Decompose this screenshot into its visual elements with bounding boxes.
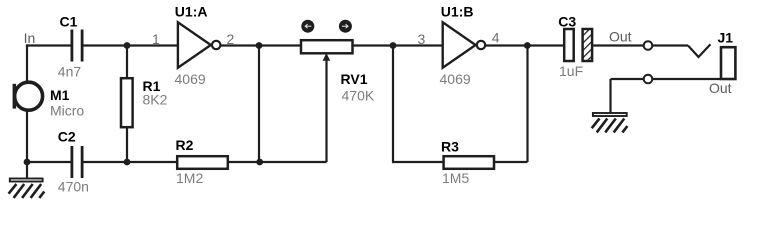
svg-text:C2: C2 (58, 129, 76, 145)
wire mic top lead (26, 44, 28, 82)
microphone M1 (13, 82, 43, 110)
svg-text:4: 4 (492, 30, 500, 46)
wire corner up to node4 (526, 46, 528, 163)
svg-text:3: 3 (418, 31, 426, 47)
wire lower pin to ground corner (611, 78, 644, 80)
svg-text:R3: R3 (441, 139, 459, 155)
svg-text:4069: 4069 (175, 71, 206, 87)
wire J1 bottom to lower pin (653, 78, 721, 80)
svg-text:4n7: 4n7 (58, 64, 82, 80)
wire node2 down to bottom rail (258, 46, 260, 163)
op-amp U1:A inverter 4069 (178, 22, 221, 67)
junction dot node 2 (256, 42, 263, 49)
svg-text:Out: Out (609, 29, 632, 45)
capacitor C2 (71, 146, 84, 178)
svg-text:RV1: RV1 (341, 71, 368, 87)
wire node2 to RV1 left (259, 44, 302, 46)
capacitor C1 (71, 30, 84, 62)
svg-text:1M5: 1M5 (442, 170, 469, 186)
junction dot R1 bottom (124, 159, 131, 166)
adjust button right (339, 20, 352, 33)
potentiometer RV1 (301, 40, 353, 53)
wire C3 to out pin (593, 44, 644, 46)
svg-text:M1: M1 (50, 87, 70, 103)
wire node3 down (392, 46, 394, 164)
wire node3 to U1:B input (393, 44, 443, 46)
ground G1 (9, 179, 45, 198)
wire R3 to corner (495, 161, 528, 163)
svg-text:470K: 470K (342, 88, 375, 104)
wire node4 to C3 (528, 44, 564, 46)
resistor R2 (177, 156, 228, 169)
wire mic junction to C2 (27, 161, 71, 163)
connector pin lower (644, 75, 653, 84)
svg-text:1uF: 1uF (559, 63, 583, 79)
wire U1:A out to node2 (221, 44, 259, 46)
adjust button left (301, 20, 314, 33)
junction dot node 3 (390, 42, 397, 49)
wire node1 down to R1 (126, 46, 128, 79)
svg-text:J1: J1 (718, 30, 734, 46)
svg-text:Out: Out (709, 80, 732, 96)
junction dot node 1 (124, 42, 131, 49)
svg-text:1: 1 (152, 31, 160, 47)
svg-text:In: In (24, 30, 36, 46)
resistor R1 (121, 78, 133, 127)
wire down to ground G2 (609, 79, 611, 113)
op-amp U1:B inverter 4069 (443, 22, 485, 67)
connector pin upper (644, 41, 653, 50)
wire R2 to node out1 (229, 161, 260, 163)
wire bottom to wiper corner (259, 161, 327, 163)
svg-text:Micro: Micro (50, 102, 84, 118)
resistor R3 (444, 156, 494, 169)
junction dot node 4 (524, 42, 531, 49)
svg-text:8K2: 8K2 (143, 92, 168, 108)
jack J1 body (721, 47, 735, 79)
svg-text:R2: R2 (176, 137, 194, 153)
svg-text:U1:A: U1:A (175, 4, 208, 20)
wire RV1 right to node3 (352, 44, 393, 46)
wire C1 to node 1 (84, 44, 128, 46)
wiper arrowhead (323, 53, 331, 61)
svg-text:470n: 470n (58, 179, 89, 195)
wire C2 to node R1 bottom (84, 161, 128, 163)
wire to R2 (127, 161, 177, 163)
svg-text:U1:B: U1:B (441, 4, 474, 20)
wire to R3 (393, 161, 444, 163)
wire mic bottom lead (26, 110, 28, 162)
svg-text:C1: C1 (60, 14, 78, 30)
wire node1 to U1:A input (127, 44, 178, 46)
wire In top rail to C1 (26, 44, 71, 46)
ground G2 (592, 113, 628, 132)
wire wiper vertical (325, 58, 327, 162)
wire U1:B out to node4 (486, 44, 528, 46)
wire pin to jack contact (653, 44, 688, 46)
svg-text:C3: C3 (558, 13, 576, 29)
junction dot mic/C2 (24, 159, 31, 166)
jack J1 tip contact (688, 44, 711, 57)
svg-text:4069: 4069 (440, 71, 471, 87)
wire junction to ground (26, 162, 28, 179)
svg-text:1M2: 1M2 (176, 170, 203, 186)
junction dot bottom node2 (256, 159, 263, 166)
wire R1 bottom to rail (126, 127, 128, 162)
capacitor C3 polarized (564, 29, 592, 61)
